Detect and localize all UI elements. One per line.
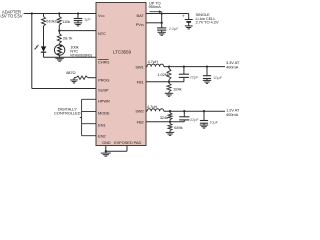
- svg-text:110k: 110k: [62, 19, 70, 24]
- svg-text:SW1: SW1: [135, 65, 144, 70]
- svg-text:22pF: 22pF: [190, 117, 199, 122]
- svg-text:22pF: 22pF: [190, 75, 199, 80]
- svg-text:10μF: 10μF: [213, 75, 222, 80]
- svg-text:GND: GND: [102, 140, 111, 145]
- svg-text:4.7μH: 4.7μH: [148, 59, 158, 64]
- svg-text:LTC3559: LTC3559: [113, 50, 131, 55]
- svg-text:BAT: BAT: [137, 13, 145, 18]
- svg-text:NTC: NTC: [98, 31, 106, 36]
- svg-text:950mA: 950mA: [149, 4, 162, 9]
- svg-text:FB1: FB1: [137, 80, 145, 85]
- svg-text:649k: 649k: [174, 125, 182, 130]
- svg-text:PROG: PROG: [98, 77, 109, 82]
- svg-text:1μF: 1μF: [84, 16, 91, 21]
- svg-text:28.7k: 28.7k: [63, 36, 72, 41]
- svg-text:FB2: FB2: [137, 119, 145, 124]
- svg-text:1.02M: 1.02M: [157, 72, 168, 77]
- svg-text:2.2μF: 2.2μF: [169, 26, 179, 31]
- svg-text:4.5V TO 5.5V: 4.5V TO 5.5V: [0, 14, 23, 19]
- svg-text:EXPOSED PAD: EXPOSED PAD: [114, 140, 141, 145]
- svg-text:VCC: VCC: [98, 13, 106, 18]
- svg-text:400mA: 400mA: [226, 64, 239, 69]
- svg-text:2.7V TO 4.2V: 2.7V TO 4.2V: [196, 20, 219, 25]
- svg-text:10μF: 10μF: [209, 120, 218, 125]
- svg-text:324k: 324k: [160, 115, 168, 120]
- svg-text:MODE: MODE: [98, 111, 110, 116]
- svg-text:HPWR: HPWR: [98, 99, 110, 104]
- svg-text:400mA: 400mA: [226, 112, 239, 117]
- svg-text:CONTROLLED: CONTROLLED: [54, 111, 81, 116]
- svg-text:+: +: [182, 13, 185, 18]
- svg-text:887Ω: 887Ω: [66, 70, 75, 75]
- svg-text:SW2: SW2: [135, 109, 144, 114]
- svg-text:EN2: EN2: [98, 134, 106, 139]
- svg-text:NTHS0603N01: NTHS0603N01: [70, 53, 92, 57]
- svg-text:4.7μH: 4.7μH: [147, 104, 157, 109]
- svg-text:324k: 324k: [173, 87, 181, 92]
- svg-text:EN1: EN1: [98, 123, 106, 128]
- svg-text:510kΩ: 510kΩ: [46, 19, 57, 24]
- svg-text:CHRG: CHRG: [98, 59, 109, 64]
- svg-text:SUSP: SUSP: [98, 88, 109, 93]
- svg-text:PVIN: PVIN: [136, 22, 144, 27]
